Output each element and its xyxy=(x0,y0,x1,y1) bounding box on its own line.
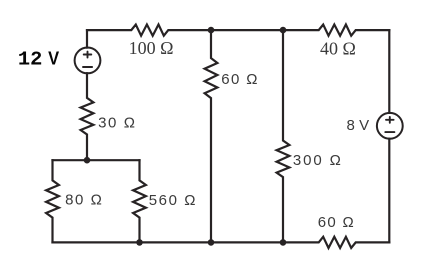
svg-text:40 Ω: 40 Ω xyxy=(320,38,356,58)
svg-text:8 V: 8 V xyxy=(347,117,370,134)
svg-text:60 Ω: 60 Ω xyxy=(318,214,354,231)
svg-text:100 Ω: 100 Ω xyxy=(129,38,174,58)
svg-text:300 Ω: 300 Ω xyxy=(293,152,341,169)
svg-text:560 Ω: 560 Ω xyxy=(149,192,196,209)
svg-text:12: 12 xyxy=(18,48,43,70)
svg-text:V: V xyxy=(48,47,60,68)
